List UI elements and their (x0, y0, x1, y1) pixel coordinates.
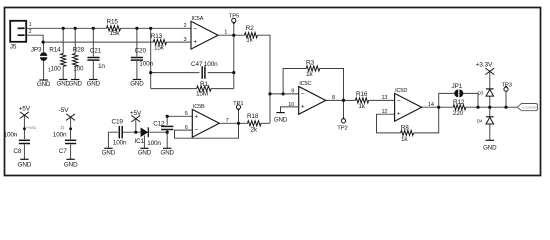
svg-text:GND: GND (138, 150, 152, 157)
svg-text:TP3: TP3 (502, 82, 513, 88)
svg-text:GND: GND (64, 162, 78, 169)
svg-text:GND: GND (18, 162, 32, 169)
svg-text:GND: GND (161, 150, 175, 157)
svg-text:R16: R16 (356, 91, 368, 98)
svg-text:+: + (195, 114, 199, 121)
svg-text:IC5A: IC5A (192, 16, 204, 22)
svg-text:R14: R14 (49, 47, 61, 54)
svg-text:15k: 15k (110, 30, 121, 37)
svg-text:IC5C: IC5C (299, 81, 311, 87)
svg-text:1k: 1k (358, 103, 365, 110)
svg-text:2: 2 (184, 23, 187, 29)
svg-text:6: 6 (185, 125, 188, 131)
svg-text:15k: 15k (154, 44, 165, 51)
svg-text:100n: 100n (139, 61, 153, 68)
svg-text:GND: GND (130, 80, 144, 87)
svg-text:1k: 1k (246, 36, 253, 43)
svg-text:−: − (397, 98, 401, 105)
svg-text:1: 1 (224, 30, 227, 36)
svg-text:+: + (301, 104, 305, 111)
svg-text:13: 13 (381, 95, 387, 101)
svg-text:D4: D4 (477, 119, 483, 124)
svg-text:IC5D: IC5D (395, 88, 407, 94)
svg-text:C7: C7 (59, 148, 67, 155)
svg-text:IC1: IC1 (135, 138, 145, 145)
svg-text:GND: GND (37, 81, 51, 88)
svg-text:15M: 15M (196, 91, 208, 98)
svg-text:+5V: +5V (19, 105, 31, 112)
svg-text:GND: GND (274, 116, 288, 123)
svg-text:9: 9 (291, 88, 294, 94)
svg-text:C8: C8 (13, 148, 21, 155)
svg-text:−: − (301, 91, 305, 98)
svg-text:1k: 1k (401, 136, 408, 143)
svg-text:−: − (193, 26, 197, 33)
svg-text:TP1: TP1 (233, 101, 243, 107)
svg-text:100: 100 (51, 65, 62, 72)
svg-text:R3: R3 (306, 59, 314, 66)
svg-text:TP2: TP2 (337, 126, 347, 132)
svg-text:12: 12 (381, 109, 387, 115)
svg-text:+: + (193, 39, 197, 46)
svg-text:100n: 100n (53, 131, 67, 138)
svg-text:100n: 100n (4, 131, 18, 138)
svg-text:P+5V$1: P+5V$1 (26, 126, 37, 130)
svg-text:1n: 1n (98, 63, 105, 70)
svg-text:1k: 1k (306, 71, 313, 78)
svg-text:2: 2 (29, 29, 32, 35)
svg-text:GND: GND (69, 80, 83, 87)
svg-text:+: + (397, 111, 401, 118)
svg-text:C12: C12 (153, 121, 165, 128)
svg-text:R13: R13 (151, 33, 163, 40)
svg-text:JP1: JP1 (452, 83, 463, 90)
svg-text:1: 1 (29, 22, 32, 28)
svg-text:+5V: +5V (130, 110, 142, 117)
svg-text:GND: GND (87, 80, 101, 87)
svg-text:R12: R12 (453, 99, 465, 106)
svg-text:-5V: -5V (59, 107, 70, 114)
svg-text:7: 7 (226, 118, 229, 124)
svg-text:TP5: TP5 (229, 13, 240, 19)
svg-text:100n: 100n (113, 139, 127, 146)
svg-text:R2: R2 (246, 25, 254, 32)
svg-text:J5: J5 (10, 43, 17, 50)
svg-text:R8: R8 (401, 124, 409, 131)
svg-text:R15: R15 (107, 18, 119, 25)
svg-text:C19: C19 (112, 118, 124, 125)
svg-text:GND: GND (102, 150, 116, 157)
svg-text:100n: 100n (147, 140, 161, 147)
svg-text:IC5B: IC5B (193, 104, 205, 110)
svg-text:R1: R1 (200, 81, 208, 88)
svg-text:+3.3V: +3.3V (476, 62, 493, 69)
svg-text:14: 14 (428, 102, 434, 108)
svg-text:C47 100n: C47 100n (191, 61, 218, 68)
svg-text:8: 8 (332, 95, 335, 101)
svg-text:D3: D3 (478, 90, 484, 95)
svg-text:GND: GND (483, 145, 497, 152)
svg-text:JP3: JP3 (31, 47, 42, 54)
svg-text:C20: C20 (135, 47, 147, 54)
svg-text:A_CONTROL: A_CONTROL (522, 105, 539, 109)
svg-text:100: 100 (73, 65, 84, 72)
svg-text:5: 5 (185, 111, 188, 117)
svg-text:10: 10 (288, 102, 294, 108)
svg-text:3: 3 (184, 37, 187, 43)
svg-text:220: 220 (453, 110, 464, 117)
svg-text:C21: C21 (90, 47, 102, 54)
svg-text:2k: 2k (251, 127, 258, 134)
svg-text:−: − (195, 127, 199, 134)
svg-text:R18: R18 (247, 113, 259, 120)
svg-text:R28: R28 (73, 47, 85, 54)
